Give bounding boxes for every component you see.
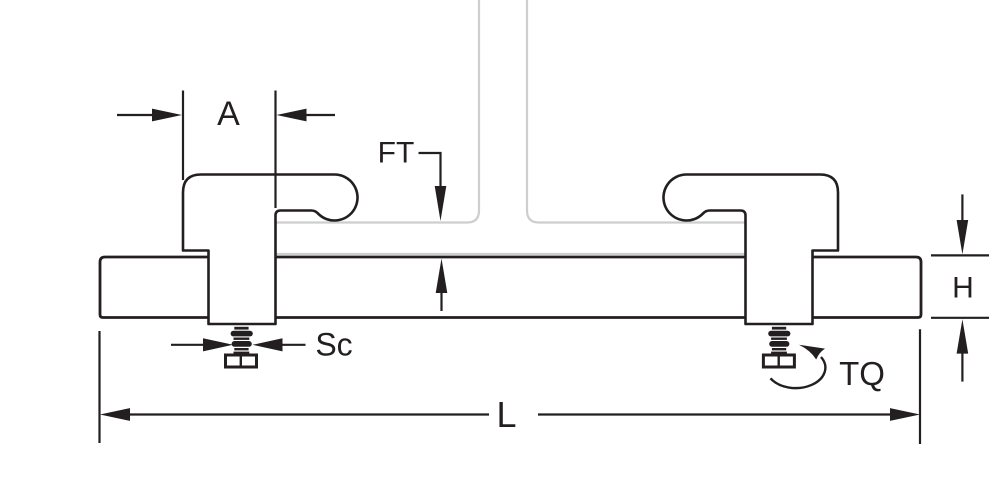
dimension Sc: left arrow	[171, 338, 233, 351]
dimension L: line with right arrow	[538, 408, 920, 421]
dimension H: up arrow	[957, 319, 969, 381]
svg-text:L: L	[496, 394, 516, 435]
dimension A: left extension line	[182, 91, 184, 181]
dimension L: line with left arrow	[100, 408, 489, 421]
FT leader with down arrow	[419, 153, 447, 221]
TQ arrowhead	[799, 345, 825, 360]
dimension H: top extension line	[931, 254, 989, 256]
left screw threads	[231, 327, 253, 354]
dimension H: down arrow	[957, 194, 969, 254]
svg-text:TQ: TQ	[839, 355, 885, 392]
TQ rotation arc	[771, 357, 826, 388]
svg-text:H: H	[952, 272, 974, 305]
dimension A: right extension line	[274, 91, 276, 209]
dimension Sc: right arrow	[253, 338, 306, 351]
left clamp	[183, 175, 358, 325]
svg-text:FT: FT	[378, 137, 415, 170]
right clamp	[663, 175, 838, 325]
right screw hex head	[763, 355, 794, 367]
dimension A: right arrow	[277, 109, 336, 122]
dimension L: left extension line	[98, 331, 100, 443]
FT up arrow inside bar	[436, 259, 448, 312]
dimension L: right extension line	[919, 329, 921, 444]
dimension H: bottom extension line	[931, 317, 989, 319]
right screw threads	[768, 327, 790, 354]
gray T-rail profile (stem + flange)	[270, 0, 750, 254]
dimension A: left arrow	[117, 109, 182, 122]
left screw hex head	[226, 355, 257, 367]
svg-text:Sc: Sc	[315, 327, 352, 363]
base bar	[100, 257, 921, 318]
svg-text:A: A	[217, 95, 240, 133]
